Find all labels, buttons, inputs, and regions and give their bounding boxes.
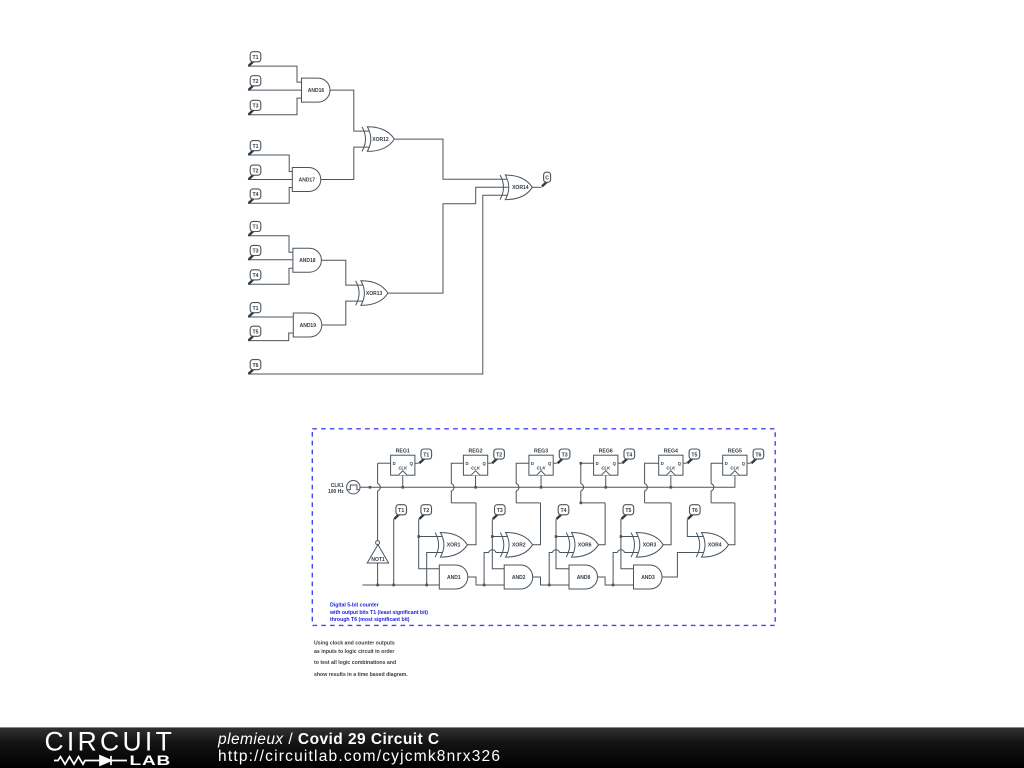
svg-text:AND8: AND8 [577, 575, 591, 581]
svg-text:T2: T2 [252, 79, 258, 85]
svg-text:T3: T3 [252, 249, 258, 255]
svg-text:T5: T5 [625, 508, 631, 514]
svg-text:REG2: REG2 [468, 449, 482, 455]
svg-text:T1: T1 [398, 508, 404, 514]
svg-text:show results in a time based d: show results in a time based diagram. [314, 672, 408, 678]
svg-text:CLK: CLK [730, 465, 740, 470]
svg-text:AND19: AND19 [300, 323, 317, 329]
svg-text:AND3: AND3 [641, 575, 655, 581]
svg-text:through T6 (most significant b: through T6 (most significant bit) [330, 617, 410, 623]
svg-text:T1: T1 [252, 225, 258, 231]
svg-text:T1: T1 [252, 306, 258, 312]
svg-text:T1: T1 [252, 144, 258, 150]
svg-text:Digital 5-bit counter: Digital 5-bit counter [330, 603, 379, 609]
svg-text:REG1: REG1 [396, 449, 410, 455]
svg-text:LAB: LAB [130, 753, 172, 768]
svg-text:as inputs to logic circuit in: as inputs to logic circuit in order [314, 649, 394, 655]
svg-text:T2: T2 [496, 452, 502, 458]
svg-text:T6: T6 [252, 363, 258, 369]
svg-text:AND1: AND1 [447, 575, 461, 581]
svg-text:T6: T6 [692, 508, 698, 514]
svg-text:XOR4: XOR4 [708, 543, 722, 549]
svg-text:AND2: AND2 [512, 575, 526, 581]
svg-text:Using clock and counter output: Using clock and counter outputs [314, 641, 395, 647]
svg-text:XOR2: XOR2 [512, 543, 526, 549]
svg-text:D: D [596, 461, 599, 466]
svg-text:T6: T6 [755, 452, 761, 458]
svg-text:AND16: AND16 [308, 88, 325, 94]
svg-text:CLK: CLK [398, 465, 408, 470]
svg-text:XOR13: XOR13 [366, 291, 383, 297]
svg-text:T3: T3 [497, 508, 503, 514]
svg-text:T5: T5 [252, 330, 258, 336]
svg-text:with output bits T1 (least sig: with output bits T1 (least significant b… [329, 610, 428, 616]
svg-text:CLK: CLK [666, 465, 676, 470]
svg-text:XOR14: XOR14 [512, 185, 529, 191]
svg-text:REG6: REG6 [599, 449, 613, 455]
svg-text:C: C [545, 176, 549, 182]
svg-text:D: D [661, 461, 664, 466]
svg-text:T4: T4 [252, 192, 258, 198]
svg-text:REG3: REG3 [534, 449, 548, 455]
svg-text:T2: T2 [423, 508, 429, 514]
svg-text:AND18: AND18 [299, 258, 316, 264]
svg-text:CLK: CLK [601, 465, 611, 470]
svg-text:T1: T1 [423, 452, 429, 458]
svg-text:NOT1: NOT1 [371, 557, 385, 563]
svg-text:T3: T3 [562, 452, 568, 458]
svg-text:T5: T5 [691, 452, 697, 458]
svg-text:to test all logic combinations: to test all logic combinations and [314, 660, 396, 666]
svg-text:XOR12: XOR12 [372, 137, 389, 143]
svg-text:CLK: CLK [471, 465, 481, 470]
svg-text:D: D [725, 461, 728, 466]
svg-text:T4: T4 [560, 508, 566, 514]
svg-text:REG5: REG5 [728, 449, 742, 455]
svg-text:CLK: CLK [537, 465, 547, 470]
svg-text:D: D [531, 461, 534, 466]
svg-text:XOR3: XOR3 [643, 543, 657, 549]
svg-text:100 Hz: 100 Hz [328, 489, 344, 495]
svg-text:T4: T4 [252, 273, 258, 279]
svg-text:T3: T3 [252, 104, 258, 110]
svg-text:D: D [393, 461, 396, 466]
svg-text:XOR1: XOR1 [447, 543, 461, 549]
svg-text:XOR6: XOR6 [578, 543, 592, 549]
svg-text:AND17: AND17 [299, 177, 316, 183]
svg-text:T1: T1 [252, 55, 258, 61]
svg-text:T4: T4 [626, 452, 632, 458]
svg-text:D: D [465, 461, 468, 466]
svg-text:REG4: REG4 [664, 449, 678, 455]
svg-text:T2: T2 [252, 168, 258, 174]
